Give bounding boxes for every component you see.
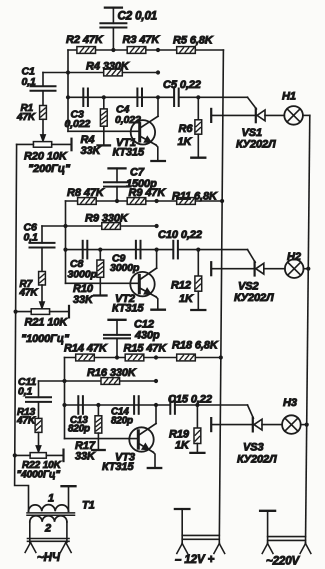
svg-text:C7: C7 [130,167,145,179]
svg-text:T1: T1 [82,500,95,512]
svg-text:R9 47K: R9 47K [129,187,167,199]
svg-text:"200Гц": "200Гц" [28,163,71,175]
svg-text:R16 330K: R16 330K [87,367,137,379]
svg-text:C2 0,01: C2 0,01 [118,11,158,23]
svg-text:VS2: VS2 [238,281,259,293]
svg-text:0,1: 0,1 [22,76,37,88]
svg-text:КУ202Л: КУ202Л [237,454,277,466]
svg-text:1K: 1K [178,136,193,148]
svg-text:0,1: 0,1 [18,386,33,398]
svg-text:820p: 820p [68,424,90,435]
svg-text:~НЧ: ~НЧ [37,552,61,564]
svg-text:H2: H2 [287,251,301,263]
svg-text:R8 47K: R8 47K [67,187,105,199]
svg-text:R3 47K: R3 47K [123,34,161,46]
svg-text:R9 330K: R9 330K [85,213,129,225]
svg-text:C10 0,22: C10 0,22 [158,229,202,241]
svg-text:R2 47K: R2 47K [66,34,104,46]
svg-text:47K: 47K [16,112,36,123]
svg-text:R18 6,8K: R18 6,8K [172,340,219,352]
svg-text:33K: 33K [75,451,96,463]
svg-text:R21 10K: R21 10K [25,317,69,329]
svg-text:~220V: ~220V [266,556,301,568]
svg-text:0,1: 0,1 [24,232,39,244]
svg-text:R14 47K: R14 47K [64,343,108,355]
svg-text:47K: 47K [16,416,36,427]
svg-text:H1: H1 [282,91,296,103]
svg-text:3000p: 3000p [68,269,98,281]
svg-text:0,022: 0,022 [65,118,91,130]
svg-text:R12: R12 [171,280,191,292]
svg-text:R15 47K: R15 47K [124,343,168,355]
svg-text:C5 0,22: C5 0,22 [163,79,201,91]
svg-text:КУ202Л: КУ202Л [236,139,276,151]
svg-text:"4000Гц": "4000Гц" [17,470,61,481]
svg-text:"1000Гц": "1000Гц" [21,333,70,345]
svg-text:VS3: VS3 [243,442,264,454]
svg-text:33K: 33K [81,145,102,157]
svg-text:КТ315: КТ315 [112,303,144,315]
svg-text:3000p: 3000p [110,262,140,274]
svg-text:430p: 430p [134,330,160,342]
svg-text:КТ315: КТ315 [113,147,145,159]
svg-text:R20 10K: R20 10K [24,151,68,163]
svg-text:VS1: VS1 [242,127,263,139]
svg-text:1: 1 [48,493,54,505]
svg-text:R11 6,8K: R11 6,8K [172,191,218,203]
svg-text:1K: 1K [175,440,190,452]
svg-text:2: 2 [44,523,51,535]
svg-text:– 12V +: – 12V + [175,554,215,566]
svg-text:33K: 33K [73,294,94,306]
svg-text:47K: 47K [19,288,39,299]
svg-text:0,022: 0,022 [115,114,141,126]
svg-text:H3: H3 [283,397,297,409]
svg-text:R4 330K: R4 330K [86,61,130,73]
svg-text:820p: 820p [111,416,133,427]
svg-text:КУ202Л: КУ202Л [234,292,274,304]
svg-text:R6: R6 [179,123,194,135]
svg-text:1K: 1K [179,293,194,305]
svg-text:R5 6,8K: R5 6,8K [173,35,214,47]
svg-text:КТ315: КТ315 [102,461,134,473]
svg-text:C15 0,22: C15 0,22 [168,394,212,406]
